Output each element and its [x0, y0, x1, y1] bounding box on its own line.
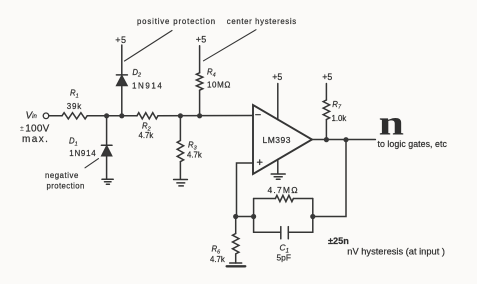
resistor R4 — [196, 46, 202, 116]
wire bottom rail — [254, 231, 281, 233]
svg-text:D1: D1 — [69, 137, 78, 148]
wire — [158, 115, 253, 117]
svg-text:4.7MΩ: 4.7MΩ — [268, 185, 299, 195]
ground — [174, 180, 188, 186]
svg-text:39k: 39k — [67, 102, 82, 111]
svg-text:negative: negative — [45, 171, 79, 180]
wire node to rect — [236, 216, 254, 218]
wire feedback vertical — [313, 140, 346, 217]
resistor R7 — [323, 84, 329, 140]
svg-text:10MΩ: 10MΩ — [207, 80, 231, 89]
ground — [271, 174, 285, 179]
resistor R6 — [233, 217, 239, 264]
svg-text:max.: max. — [22, 134, 49, 145]
svg-text:D2: D2 — [132, 68, 141, 79]
junction feedback-network right node — [310, 214, 315, 219]
wire — [288, 231, 313, 233]
leader line negative protection — [85, 159, 99, 168]
svg-text:+5: +5 — [322, 72, 332, 82]
svg-text:center hysteresis: center hysteresis — [227, 17, 297, 26]
op-amp U1 LM393 — [253, 105, 312, 174]
svg-text:+5: +5 — [115, 35, 126, 45]
svg-text:positive protection: positive protection — [137, 17, 216, 26]
wire — [49, 115, 62, 117]
junction output/feedback node — [343, 137, 348, 142]
resistor R1 — [62, 113, 87, 119]
wire feedback right vertical — [312, 199, 314, 233]
svg-text:n: n — [379, 103, 404, 142]
capacitor C1 — [281, 227, 289, 239]
junction R4/inverting-input node — [197, 113, 202, 118]
junction R3/input node — [178, 113, 183, 118]
svg-text:±25n: ±25n — [328, 236, 349, 246]
junction D2/input node — [119, 113, 124, 118]
svg-text:R1: R1 — [70, 89, 79, 100]
ground — [102, 179, 113, 184]
wire plus-input to feedback node — [237, 163, 254, 217]
svg-text:R7: R7 — [332, 100, 342, 111]
wire V+ supply — [277, 84, 279, 120]
wire V- to ground — [277, 159, 279, 173]
svg-text:Vin: Vin — [26, 110, 38, 121]
svg-text:R6: R6 — [212, 245, 222, 256]
svg-text:4.7k: 4.7k — [139, 131, 154, 140]
ground — [227, 263, 246, 266]
diode D1 — [101, 116, 112, 179]
wire feedback top rail — [254, 198, 276, 200]
svg-text:4.7k: 4.7k — [187, 151, 202, 160]
leader line center hysteresis — [204, 30, 257, 61]
wire — [293, 198, 312, 200]
wire feedback left vertical — [253, 199, 255, 233]
diode D2 — [116, 45, 127, 116]
wire — [87, 115, 137, 117]
svg-text:R4: R4 — [207, 68, 216, 79]
svg-text:+5: +5 — [196, 35, 207, 45]
resistor 4.7M feedback — [275, 195, 293, 201]
resistor R2 — [137, 113, 158, 119]
junction feedback-network left node — [251, 214, 256, 219]
resistor R3 — [177, 116, 183, 179]
junction R7/output node — [324, 137, 329, 142]
leader line positive protection — [125, 31, 173, 62]
svg-text:1N914: 1N914 — [132, 81, 163, 90]
svg-text:4.7k: 4.7k — [210, 255, 225, 264]
svg-text:1N914: 1N914 — [69, 149, 96, 158]
plus input sign — [257, 160, 262, 165]
svg-text:protection: protection — [47, 181, 85, 190]
junction D1/input node — [104, 113, 109, 118]
junction R6/non-inverting node — [233, 214, 238, 219]
minus input sign — [256, 114, 261, 116]
wire output — [312, 139, 375, 141]
svg-text:100V: 100V — [25, 124, 49, 135]
input terminal Vin — [43, 113, 49, 119]
svg-text:5pF: 5pF — [277, 253, 291, 263]
svg-text:1.0k: 1.0k — [332, 114, 347, 123]
svg-text:nV hysteresis (at input ): nV hysteresis (at input ) — [347, 247, 445, 257]
svg-text:±: ± — [20, 125, 24, 132]
svg-text:LM393: LM393 — [263, 135, 292, 145]
svg-text:+5: +5 — [272, 72, 282, 82]
